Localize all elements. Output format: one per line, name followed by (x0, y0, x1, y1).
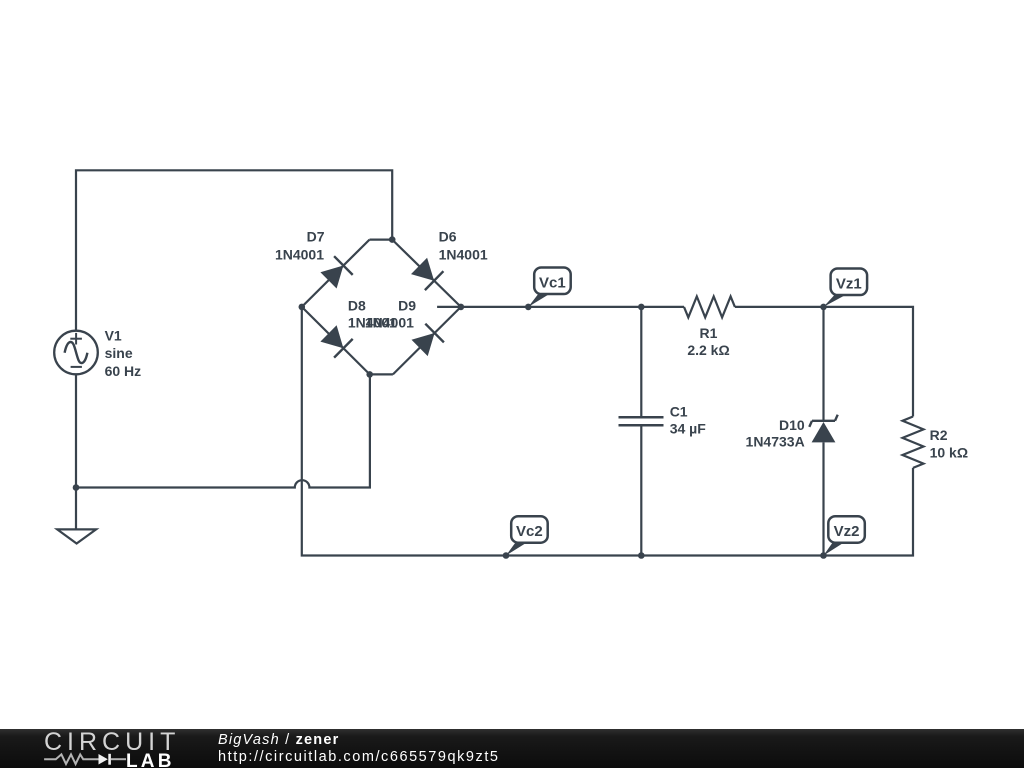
net flag Vc1 (525, 268, 571, 311)
net flag Vc2 (503, 516, 548, 559)
wire: bridge right stub (437, 306, 461, 308)
svg-text:1N4001: 1N4001 (439, 246, 488, 262)
CircuitLab logo (0, 729, 210, 768)
label D7 (275, 229, 325, 263)
ground symbol (57, 529, 96, 543)
logo resistor-diode squiggle (44, 754, 126, 765)
wire: R1 to Vz1 to R2 top (735, 307, 913, 417)
capacitor C1 (619, 417, 664, 425)
node V1 ground junction (73, 484, 80, 491)
wire: bridge bottom stub (370, 373, 393, 375)
node bridge left (299, 304, 306, 311)
svg-text:Vc1: Vc1 (539, 274, 566, 291)
svg-text:R1: R1 (700, 325, 718, 341)
AC source V1 (54, 331, 98, 375)
svg-text:Vz1: Vz1 (836, 275, 862, 292)
svg-text:34 µF: 34 µF (670, 421, 707, 437)
svg-text:D8: D8 (348, 298, 366, 314)
node C1 bottom junction (638, 552, 645, 559)
wire: V1 bottom lead (75, 375, 77, 530)
svg-text:sine: sine (105, 345, 133, 361)
svg-text:1N4733A: 1N4733A (746, 433, 805, 449)
svg-text:R2: R2 (930, 427, 948, 443)
svg-text:Vc2: Vc2 (516, 523, 543, 540)
svg-text:2.2 kΩ: 2.2 kΩ (687, 342, 729, 358)
net flag Vz1 (820, 269, 867, 311)
wire: bridge top stub (370, 239, 393, 241)
label D10 (746, 417, 805, 449)
svg-text:60 Hz: 60 Hz (105, 363, 142, 379)
svg-text:V1: V1 (105, 328, 122, 344)
wire: bridge left node down and along bottom rail to R2 (302, 307, 913, 556)
label V1 (105, 328, 142, 380)
svg-text:D7: D7 (307, 229, 325, 245)
wire: zener top lead (822, 307, 824, 421)
node bridge bottom (366, 371, 373, 378)
diode D7 (302, 240, 370, 307)
svg-text:10 kΩ: 10 kΩ (930, 445, 968, 461)
svg-text:Vz2: Vz2 (834, 523, 860, 540)
wire: bridge right node to R1 (461, 306, 684, 308)
wire: C1 bottom lead (640, 426, 642, 555)
label R2 (930, 427, 968, 461)
node bridge right (458, 304, 465, 311)
resistor R2 (903, 417, 924, 468)
label C1 (670, 404, 707, 437)
wire: zener bottom lead (822, 442, 824, 555)
zener diode D10 (809, 415, 837, 443)
label R1 (687, 325, 729, 358)
svg-text:D9: D9 (398, 298, 416, 314)
svg-text:1N4001: 1N4001 (275, 246, 324, 262)
svg-text:D6: D6 (439, 229, 457, 245)
node C1 top junction (638, 304, 645, 311)
footer credits (218, 732, 500, 767)
resistor R1 (684, 296, 735, 317)
label D9 (365, 298, 416, 331)
diode D9 (393, 307, 461, 375)
label D8 (348, 298, 397, 331)
wire: ground rail with hop up to bridge bottom (76, 374, 370, 487)
label D6 (439, 229, 488, 263)
svg-text:1N4001: 1N4001 (365, 315, 414, 331)
wire: C1 top lead (640, 307, 642, 416)
diode D6 (392, 240, 461, 307)
net flag Vz2 (820, 516, 865, 559)
node bridge top (389, 236, 396, 243)
svg-text:C1: C1 (670, 404, 688, 420)
wire: V1 top to bridge top (76, 170, 392, 331)
diode D8 (302, 307, 370, 375)
svg-text:D10: D10 (779, 417, 805, 433)
